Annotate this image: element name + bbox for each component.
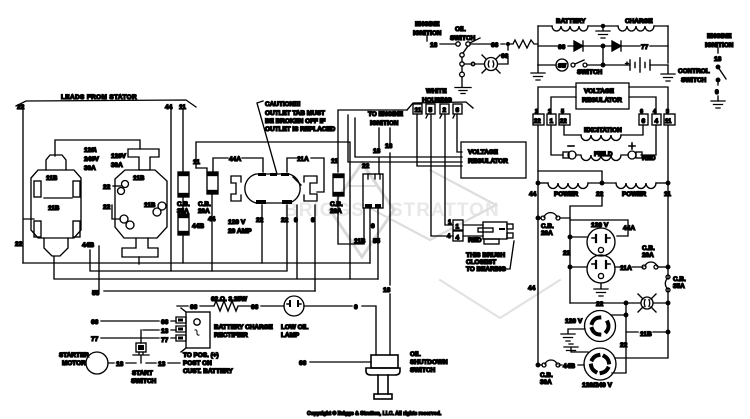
housing left wires	[338, 110, 407, 172]
svg-text:START: START	[132, 370, 153, 377]
circuit breaker C.B. 20A right arc	[645, 262, 657, 266]
svg-text:SWITCH: SWITCH	[131, 378, 157, 385]
connector block	[363, 174, 383, 208]
wire 22 lamp row	[570, 302, 668, 304]
control switch contacts	[716, 65, 720, 69]
svg-text:240V: 240V	[84, 156, 100, 163]
svg-text:SWITCH: SWITCH	[681, 77, 707, 84]
receptacle B contacts	[122, 181, 129, 188]
svg-text:Copyright © Briggs & Stratton,: Copyright © Briggs & Stratton, LLC. All …	[307, 410, 442, 417]
receptacle A bottom tab	[44, 238, 68, 256]
svg-text:13: 13	[161, 328, 169, 335]
svg-text:30A: 30A	[84, 165, 96, 172]
svg-text:VOLTAGE: VOLTAGE	[468, 149, 499, 156]
voltage regulator mid box	[461, 142, 526, 178]
brush holder assembly	[463, 225, 483, 236]
svg-text:66: 66	[491, 42, 499, 49]
svg-text:C.B.: C.B.	[541, 223, 554, 230]
battery winding	[552, 26, 588, 31]
svg-text:30A: 30A	[111, 162, 123, 169]
wire 44B vertical	[98, 246, 100, 291]
svg-text:6: 6	[456, 107, 460, 114]
CENTER TOP: oil switch	[413, 21, 538, 94]
SW switch circle	[556, 59, 568, 71]
svg-text:OUTLET TAB MUST: OUTLET TAB MUST	[265, 110, 325, 117]
svg-text:OIL: OIL	[455, 26, 466, 33]
right bus to twist2	[615, 332, 668, 358]
right bus down	[667, 125, 669, 332]
svg-text:C.B.: C.B.	[198, 201, 211, 208]
svg-text:44: 44	[529, 191, 537, 198]
svg-text:44B: 44B	[563, 363, 575, 370]
svg-text:77: 77	[641, 44, 649, 51]
svg-text:BE BROKEN OFF IF: BE BROKEN OFF IF	[265, 118, 325, 125]
low oil lamp	[284, 296, 304, 316]
svg-text:120V: 120V	[111, 153, 127, 160]
battery charge rectifier	[176, 317, 186, 323]
duplex circle 2	[587, 255, 615, 283]
svg-text:22: 22	[563, 250, 571, 257]
svg-text:18: 18	[714, 56, 722, 63]
bus y263	[23, 262, 370, 264]
svg-text:0: 0	[371, 223, 375, 230]
svg-text:11: 11	[415, 107, 422, 114]
svg-text:POWER: POWER	[554, 191, 579, 198]
terminal 6	[639, 114, 648, 125]
svg-text:44A: 44A	[623, 225, 635, 232]
svg-text:2: 2	[443, 107, 447, 114]
resistor top	[508, 40, 538, 48]
svg-text:4: 4	[655, 118, 659, 125]
svg-text:66: 66	[91, 319, 99, 326]
outlet top slots	[258, 173, 266, 176]
wire 18 starter	[108, 362, 136, 364]
svg-text:22: 22	[362, 163, 370, 170]
receptacle A top tab	[46, 155, 66, 170]
RIGHT regulator/field	[528, 83, 675, 365]
svg-text:SWITCH: SWITCH	[410, 367, 436, 374]
receptacle B top tab	[128, 149, 159, 170]
wire 55 block drop	[377, 208, 379, 279]
svg-text:22: 22	[560, 119, 567, 125]
svg-text:66: 66	[299, 360, 307, 367]
svg-text:SWITCH: SWITCH	[450, 35, 476, 42]
wire B bottom drop	[138, 257, 140, 264]
BOTTOM RIGHT receptacles	[536, 197, 686, 389]
svg-text:C.B.: C.B.	[642, 245, 655, 252]
diode row wire	[538, 45, 668, 47]
svg-text:20A: 20A	[642, 252, 654, 259]
wire bus to power junction	[538, 171, 602, 183]
circuit breaker C.B. 20A mid	[207, 172, 218, 194]
plus sign	[629, 143, 635, 149]
svg-text:BATTERY CHARGE: BATTERY CHARGE	[214, 324, 274, 331]
svg-text:STARTER: STARTER	[59, 352, 89, 359]
svg-text:OIL: OIL	[410, 351, 421, 358]
terminal 4	[652, 114, 661, 125]
svg-text:4: 4	[456, 235, 460, 242]
WATERMARK	[284, 163, 560, 318]
svg-text:22: 22	[620, 342, 628, 349]
junction diode row	[601, 44, 605, 48]
svg-text:11B: 11B	[46, 175, 58, 182]
terminal 22 a	[533, 114, 544, 125]
svg-text:MOTOR: MOTOR	[62, 360, 86, 367]
switch contacts	[538, 64, 556, 66]
terminal 1	[453, 220, 463, 230]
receptacle 120/240V 30A body	[31, 170, 81, 238]
svg-text:77: 77	[91, 336, 99, 343]
diode 1	[574, 41, 583, 51]
terminal 4	[453, 231, 463, 241]
oil shutdown switch	[371, 355, 398, 368]
svg-text:C.B.: C.B.	[540, 372, 553, 379]
svg-text:5: 5	[561, 109, 564, 115]
wire 13 to battery post	[146, 362, 180, 364]
terminal 1	[547, 114, 556, 125]
svg-text:EXCITATION: EXCITATION	[584, 127, 622, 134]
circuit breaker 44B below 35A	[178, 214, 189, 235]
svg-text:CLOSEST: CLOSEST	[466, 259, 496, 266]
duplex outlet 120V 20AMP	[245, 174, 300, 203]
svg-text:11: 11	[331, 158, 338, 165]
svg-text:30A: 30A	[540, 379, 552, 386]
excitation loop	[564, 125, 643, 135]
battery cells	[603, 64, 630, 66]
wire 44 bus	[170, 110, 172, 271]
ground twist1	[561, 329, 585, 341]
receptacle 120V 30A body	[115, 170, 167, 238]
housing pin 5	[426, 104, 435, 114]
circuit breaker C.B. 30A	[545, 360, 557, 364]
svg-text:22: 22	[596, 301, 604, 308]
wire 11B row	[626, 331, 668, 333]
svg-text:120/240 V: 120/240 V	[582, 382, 613, 389]
svg-text:22: 22	[534, 119, 541, 125]
svg-text:VOLTAGE: VOLTAGE	[584, 88, 615, 95]
housing pin 11	[413, 104, 422, 114]
ground control switch	[711, 101, 725, 108]
wire 11 bus	[182, 110, 184, 172]
lamp wires	[465, 63, 484, 65]
power winding right	[616, 183, 656, 189]
wire 13 vertical	[140, 330, 142, 343]
svg-text:11: 11	[193, 159, 200, 166]
outlet loop box	[196, 142, 350, 279]
svg-text:18: 18	[385, 143, 393, 150]
svg-text:FIELD: FIELD	[594, 151, 613, 158]
svg-text:3: 3	[666, 109, 669, 115]
indicator lamp center	[485, 58, 498, 71]
BOTTOM LEFT starter/rectifier	[59, 296, 448, 417]
svg-text:120 V: 120 V	[228, 219, 246, 226]
svg-text:ENGINE: ENGINE	[707, 33, 732, 40]
svg-text:11B: 11B	[640, 331, 652, 338]
svg-text:66: 66	[558, 44, 566, 51]
svg-text:11A: 11A	[297, 156, 309, 163]
svg-text:120 V: 120 V	[565, 318, 583, 325]
svg-text:1: 1	[550, 118, 554, 125]
svg-text:IGNITION: IGNITION	[705, 42, 734, 49]
svg-text:44B: 44B	[192, 223, 204, 230]
svg-text:1: 1	[548, 109, 551, 115]
outlet left bracket	[231, 176, 241, 201]
svg-text:66: 66	[251, 304, 259, 311]
svg-text:11: 11	[664, 191, 671, 198]
svg-text:THIS BRUSH: THIS BRUSH	[466, 252, 505, 259]
wire loop CB right to block	[338, 196, 364, 244]
svg-text:44: 44	[528, 285, 536, 292]
svg-text:6: 6	[642, 118, 646, 125]
outlet bottom slots	[256, 200, 266, 204]
oil switch contacts	[456, 42, 460, 46]
svg-text:120\: 120\	[84, 147, 97, 154]
svg-text:C.B.: C.B.	[330, 201, 343, 208]
svg-text:LOW OIL: LOW OIL	[281, 324, 308, 331]
svg-text:0: 0	[354, 304, 358, 311]
svg-text:11: 11	[665, 119, 672, 125]
svg-text:BATTERY: BATTERY	[556, 18, 586, 25]
svg-text:11A: 11A	[620, 265, 632, 272]
wire 66 row	[470, 43, 505, 45]
svg-text:RECTIFIER: RECTIFIER	[214, 332, 248, 339]
ground twist2	[564, 344, 588, 352]
left vert	[537, 26, 539, 65]
duplex circle 1	[587, 228, 615, 256]
wire CB20A mid down	[211, 194, 213, 271]
left brush	[563, 152, 569, 158]
leads from stator bracket	[16, 100, 196, 107]
svg-text:20A: 20A	[541, 230, 553, 237]
outlet right bracket	[304, 176, 317, 201]
svg-text:22: 22	[281, 217, 289, 224]
TOP RIGHT battery/charge	[531, 18, 734, 108]
right vert	[667, 26, 669, 63]
minus sign	[568, 145, 574, 147]
svg-text:20 AMP: 20 AMP	[228, 228, 252, 235]
svg-text:55: 55	[373, 238, 381, 245]
housing outline	[407, 102, 473, 110]
svg-text:5: 5	[429, 107, 433, 114]
pin wires to VR	[417, 114, 462, 166]
svg-text:CAUTION!!!: CAUTION!!!	[265, 101, 301, 108]
wire receptacle top link	[55, 140, 140, 156]
LEFT SECTION	[15, 94, 378, 297]
housing pin 2	[440, 104, 449, 114]
svg-text:18: 18	[430, 42, 438, 49]
ground below oil switch	[455, 88, 471, 94]
svg-text:WHITE: WHITE	[426, 88, 447, 95]
wire 0 block drop	[369, 208, 371, 263]
svg-text:SWITCH: SWITCH	[577, 69, 603, 76]
svg-text:TO BEARING: TO BEARING	[466, 266, 506, 273]
svg-text:RED: RED	[642, 155, 656, 162]
svg-text:44B: 44B	[82, 242, 94, 249]
svg-text:OUTLET IS REPLACED: OUTLET IS REPLACED	[265, 126, 336, 133]
svg-text:RED: RED	[468, 237, 482, 244]
svg-text:20A: 20A	[198, 208, 210, 215]
svg-text:2: 2	[535, 109, 538, 115]
bus y280	[54, 205, 378, 279]
svg-text:18: 18	[116, 361, 124, 368]
field wires	[551, 125, 563, 155]
power winding left	[538, 182, 548, 184]
svg-text:6: 6	[640, 109, 643, 115]
caution leader line	[257, 101, 277, 174]
field winding	[576, 155, 628, 161]
terminal 22 b	[559, 114, 570, 125]
MIDDLE SECTION	[193, 101, 462, 355]
svg-text:20A: 20A	[330, 208, 342, 215]
svg-text:SHUTDOWN: SHUTDOWN	[410, 359, 448, 366]
svg-text:11B: 11B	[354, 238, 366, 245]
wire 22 to twistlock	[612, 303, 626, 373]
pilot lamp	[641, 297, 653, 309]
voltage regulator right box	[576, 83, 629, 109]
svg-text:13: 13	[158, 361, 166, 368]
svg-text:11B: 11B	[48, 205, 60, 212]
svg-text:66: 66	[190, 304, 198, 311]
svg-text:77: 77	[161, 337, 169, 344]
svg-text:IGNITION: IGNITION	[370, 120, 399, 127]
svg-text:REGULATOR: REGULATOR	[468, 158, 508, 165]
start switch	[136, 343, 146, 352]
svg-text:TO POS. (+): TO POS. (+)	[183, 352, 219, 359]
right brush	[628, 151, 636, 159]
svg-text:0: 0	[294, 217, 298, 224]
wire 44B	[559, 364, 584, 366]
wire 22 left bus	[23, 110, 34, 263]
circuit breaker C.B. 35A arc	[665, 278, 668, 289]
lamp to oil shutdown	[304, 306, 376, 355]
WHITE HOUSING + VR MID	[407, 88, 526, 273]
svg-text:C.B.: C.B.	[673, 276, 686, 283]
svg-text:POWER: POWER	[622, 191, 647, 198]
44A loop	[570, 220, 628, 236]
svg-text:44A: 44A	[229, 156, 241, 163]
receptacle A slots	[34, 181, 41, 197]
svg-text:18: 18	[383, 287, 391, 294]
svg-text:CUST. BATTERY: CUST. BATTERY	[183, 368, 233, 375]
wire 18 to contact	[440, 43, 455, 45]
VR right wires	[629, 87, 668, 114]
svg-text:66: 66	[501, 53, 509, 60]
circuit breaker C.B. 20A right	[333, 174, 344, 196]
circuit breaker C.B. 20A arc left	[544, 213, 557, 217]
ground below duplex	[594, 283, 608, 296]
svg-text:22: 22	[103, 204, 111, 211]
svg-text:11B: 11B	[144, 202, 156, 209]
ground right battery	[661, 65, 675, 81]
svg-text:11B: 11B	[133, 175, 145, 182]
svg-text:ENGINE: ENGINE	[415, 21, 440, 28]
wire 11A right	[615, 266, 643, 268]
twist lock 120/240V	[584, 348, 616, 380]
housing pin 6	[453, 104, 462, 114]
terminal 11	[664, 114, 675, 125]
svg-text:CONTROL: CONTROL	[678, 68, 710, 75]
circuit breaker C.B. 35A	[178, 172, 189, 197]
wire 22 outlet drop	[261, 205, 263, 263]
ground left sw	[531, 65, 545, 80]
svg-text:0: 0	[715, 89, 719, 96]
svg-text:LAMP: LAMP	[281, 332, 300, 339]
svg-text:35A: 35A	[673, 283, 685, 290]
wire power to 22 drop	[570, 197, 602, 303]
VR left wires	[538, 87, 576, 114]
svg-text:1: 1	[456, 224, 460, 231]
svg-text:22: 22	[103, 184, 111, 191]
svg-text:LEADS FROM STATOR: LEADS FROM STATOR	[61, 94, 137, 101]
svg-text:18: 18	[373, 148, 381, 155]
top wire	[538, 25, 668, 27]
svg-text:CHARGE: CHARGE	[625, 18, 653, 25]
svg-text:TO ENGINE: TO ENGINE	[368, 111, 404, 118]
wire CB44B down	[182, 197, 184, 263]
svg-text:22: 22	[15, 241, 23, 248]
svg-text:66: 66	[161, 319, 169, 326]
charge winding	[618, 26, 654, 31]
svg-text:22: 22	[256, 217, 264, 224]
receptacle B bottom tab	[122, 238, 158, 257]
left bus down	[537, 125, 539, 365]
svg-text:SW: SW	[558, 64, 566, 70]
svg-text:REGULATOR: REGULATOR	[582, 97, 622, 104]
diode 2	[612, 41, 621, 51]
ground mid top	[601, 24, 604, 27]
svg-text:POST ON: POST ON	[183, 360, 212, 367]
bus y271	[90, 205, 287, 271]
excitation winding	[581, 135, 621, 141]
